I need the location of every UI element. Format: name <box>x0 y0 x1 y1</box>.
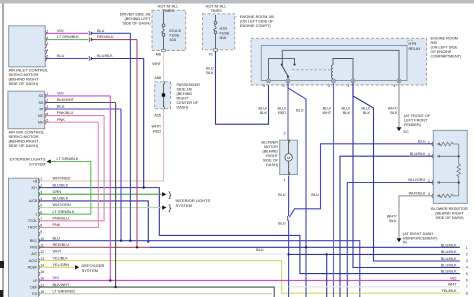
svg-text:R/B: R/B <box>431 41 438 45</box>
svg-text:4: 4 <box>466 266 468 270</box>
svg-text:BLK: BLK <box>260 111 268 115</box>
svg-text:OF ENGINE: OF ENGINE <box>431 50 452 54</box>
svg-text:BLU: BLU <box>97 29 105 33</box>
svg-text:BLU: BLU <box>311 193 319 197</box>
svg-text:1: 1 <box>35 212 37 216</box>
svg-text:SIDE OF: SIDE OF <box>263 159 279 163</box>
svg-text:REINFORCEMENT): REINFORCEMENT) <box>403 237 438 241</box>
svg-text:BLK: BLK <box>390 111 398 115</box>
svg-text:BLU: BLU <box>296 109 304 113</box>
svg-text:2: 2 <box>466 253 468 257</box>
svg-text:4: 4 <box>428 192 430 196</box>
svg-text:A/C: A/C <box>31 252 37 256</box>
svg-text:BLK: BLK <box>206 71 214 75</box>
svg-text:BLU/BLK: BLU/BLK <box>441 263 457 267</box>
svg-text:ENGINE ROOM J/B: ENGINE ROOM J/B <box>240 15 274 19</box>
svg-text:BLU: BLU <box>278 193 286 197</box>
svg-text:BLU/BLK: BLU/BLK <box>441 269 457 273</box>
svg-text:3: 3 <box>466 259 468 263</box>
svg-text:TIMES: TIMES <box>210 9 222 13</box>
svg-text:SYSTEM: SYSTEM <box>82 268 98 273</box>
svg-text:BLOWER: BLOWER <box>262 141 279 145</box>
svg-text:8: 8 <box>466 291 468 295</box>
svg-text:TCOL: TCOL <box>28 219 37 223</box>
svg-text:(BEHIND: (BEHIND <box>177 92 193 96</box>
svg-text:CENTER OF: CENTER OF <box>177 101 200 105</box>
svg-text:ACIO: ACIO <box>29 259 38 263</box>
svg-text:BLU/: BLU/ <box>259 106 268 110</box>
svg-text:VIO: VIO <box>53 276 60 280</box>
svg-text:LT GRN/BLK: LT GRN/BLK <box>57 157 79 161</box>
svg-text:HTR: HTR <box>409 42 417 46</box>
svg-text:HTR: HTR <box>220 27 228 31</box>
svg-text:VIO: VIO <box>57 92 64 96</box>
svg-text:SIDE OF DASH): SIDE OF DASH) <box>9 143 39 148</box>
svg-text:BLU/BLK: BLU/BLK <box>441 250 457 254</box>
svg-text:PNK: PNK <box>53 223 61 227</box>
svg-text:BLU: BLU <box>278 222 286 226</box>
svg-text:MH: MH <box>38 121 44 125</box>
svg-text:HOT AT ALL: HOT AT ALL <box>206 4 227 8</box>
svg-text:BLU: BLU <box>57 54 65 58</box>
svg-text:BLK: BLK <box>343 111 351 115</box>
svg-text:1: 1 <box>466 246 468 250</box>
svg-text:BLU/BLK: BLU/BLK <box>97 54 113 58</box>
svg-text:YEL/BLK: YEL/BLK <box>53 256 69 260</box>
svg-text:RED: RED <box>278 111 286 115</box>
svg-text:THOT: THOT <box>28 226 38 230</box>
svg-text:BLU/ORG: BLU/ORG <box>408 178 425 182</box>
svg-text:DRIVER SIDE J/B: DRIVER SIDE J/B <box>120 13 151 17</box>
svg-text:WHT/BLK: WHT/BLK <box>409 192 426 196</box>
svg-text:MC: MC <box>38 114 44 118</box>
svg-text:2: 2 <box>283 132 285 136</box>
svg-text:4: 4 <box>46 48 48 52</box>
svg-text:(ON LEFT SIDE: (ON LEFT SIDE <box>431 45 459 49</box>
svg-text:FUSE: FUSE <box>170 34 180 38</box>
svg-text:4: 4 <box>394 84 396 88</box>
svg-text:(BEHIND LEFT: (BEHIND LEFT <box>125 17 152 21</box>
svg-text:+B: +B <box>33 179 38 183</box>
svg-text:BLK: BLK <box>363 111 371 115</box>
svg-text:PNK: PNK <box>57 118 65 122</box>
svg-text:7: 7 <box>466 285 468 289</box>
svg-text:RIGHT: RIGHT <box>266 154 278 158</box>
svg-text:RED/BLU: RED/BLU <box>97 35 114 39</box>
svg-text:(BEHIND: (BEHIND <box>262 150 278 154</box>
svg-text:5: 5 <box>466 272 468 276</box>
svg-text:ECU-B: ECU-B <box>170 29 182 33</box>
svg-text:BLU/: BLU/ <box>362 106 371 110</box>
svg-text:15: 15 <box>40 270 44 274</box>
svg-text:SYSTEM: SYSTEM <box>29 161 45 166</box>
svg-text:YEL/BLK: YEL/BLK <box>441 289 457 293</box>
svg-text:BLK: BLK <box>389 219 397 223</box>
svg-text:MOTOR: MOTOR <box>264 145 278 149</box>
svg-text:WHT/: WHT/ <box>151 125 162 129</box>
svg-text:A88: A88 <box>154 76 161 80</box>
svg-text:BLOWER RESISTOR: BLOWER RESISTOR <box>431 207 468 211</box>
svg-text:BLK/WHT: BLK/WHT <box>57 98 75 102</box>
svg-text:BLU/: BLU/ <box>342 106 351 110</box>
svg-text:6: 6 <box>466 279 468 283</box>
svg-text:VIO: VIO <box>57 29 64 33</box>
svg-text:}: } <box>169 203 172 213</box>
svg-text:PNK/BLU: PNK/BLU <box>57 111 74 115</box>
svg-text:LT GRN/BLK: LT GRN/BLK <box>57 35 79 39</box>
svg-text:FRS: FRS <box>30 246 38 250</box>
svg-text:M: M <box>287 156 290 160</box>
svg-text:9: 9 <box>40 230 42 234</box>
svg-text:BLU: BLU <box>57 105 65 109</box>
svg-text:WHT: WHT <box>53 250 62 254</box>
svg-text:M6: M6 <box>156 53 161 57</box>
svg-text:A/CB: A/CB <box>29 199 38 203</box>
svg-text:COMPARTMENT): COMPARTMENT) <box>431 54 462 58</box>
svg-text:BLU: BLU <box>418 140 426 144</box>
svg-text:(BEHIND RIGHT: (BEHIND RIGHT <box>435 211 464 215</box>
svg-text:WHT: WHT <box>152 62 161 66</box>
svg-text:2: 2 <box>328 84 330 88</box>
svg-text:WHT: WHT <box>448 283 457 287</box>
svg-text:F.D: F.D <box>32 292 38 296</box>
svg-text:TP: TP <box>39 107 44 111</box>
svg-text:REC: REC <box>30 239 38 243</box>
svg-text:F1: F1 <box>209 53 213 57</box>
svg-text:}: } <box>169 189 172 199</box>
svg-text:RED: RED <box>153 129 161 133</box>
svg-text:BLU: BLU <box>53 236 61 240</box>
svg-text:IN: IN <box>403 240 407 244</box>
svg-text:BLU/BLK: BLU/BLK <box>441 257 457 261</box>
svg-text:1: 1 <box>283 178 285 182</box>
svg-text:ENGINE COMPT): ENGINE COMPT) <box>240 24 271 28</box>
svg-text:RED/BLU: RED/BLU <box>53 243 70 247</box>
svg-text:LP: LP <box>33 279 38 283</box>
svg-text:RIGHT: RIGHT <box>177 96 189 100</box>
svg-text:3: 3 <box>283 84 285 88</box>
svg-text:HOT AT ALL: HOT AT ALL <box>158 4 179 8</box>
svg-text:2: 2 <box>428 179 430 183</box>
svg-text:WHT/: WHT/ <box>387 214 398 218</box>
svg-text:5: 5 <box>263 84 265 88</box>
svg-text:RELAY: RELAY <box>409 47 422 51</box>
svg-text:SIDE J/B: SIDE J/B <box>177 87 193 91</box>
svg-text:PASSENGER: PASSENGER <box>177 83 201 87</box>
svg-text:WHT/: WHT/ <box>388 106 399 110</box>
svg-text:WHT/RED: WHT/RED <box>53 177 71 181</box>
svg-text:WHT/GRN: WHT/GRN <box>53 203 71 207</box>
svg-text:BLU/: BLU/ <box>278 106 287 110</box>
svg-text:RDEF: RDEF <box>28 265 38 269</box>
svg-text:EC: EC <box>404 130 410 134</box>
svg-text:BLU/BLK: BLU/BLK <box>53 197 69 201</box>
svg-text:(AT FRONT OF: (AT FRONT OF <box>404 114 431 118</box>
svg-text:3: 3 <box>428 153 430 157</box>
svg-text:BLU/BLK: BLU/BLK <box>410 152 426 156</box>
svg-text:DASH): DASH) <box>266 163 279 167</box>
svg-text:BLU: BLU <box>256 248 264 252</box>
svg-text:LEFT FRONT: LEFT FRONT <box>404 118 428 122</box>
svg-text:1: 1 <box>428 140 430 144</box>
svg-text:TIMES: TIMES <box>162 9 174 13</box>
svg-text:DASH): DASH) <box>177 105 190 109</box>
svg-text:BLU: BLU <box>206 66 214 70</box>
svg-text:10A: 10A <box>170 38 177 42</box>
svg-text:1: 1 <box>348 84 350 88</box>
svg-text:A26: A26 <box>154 114 161 118</box>
svg-text:BLU/BLK: BLU/BLK <box>53 183 69 187</box>
svg-text:SG: SG <box>38 101 43 105</box>
svg-text:FENDER): FENDER) <box>404 123 422 127</box>
svg-text:GRN: GRN <box>53 190 62 194</box>
svg-text:LT GRN/BLK: LT GRN/BLK <box>53 210 75 214</box>
svg-text:SG: SG <box>38 94 43 98</box>
svg-text:ENGINE ROOM: ENGINE ROOM <box>431 36 458 40</box>
svg-text:FUSE: FUSE <box>220 32 230 36</box>
svg-text:BLU/BLK: BLU/BLK <box>441 244 457 248</box>
svg-text:PNK/BLU: PNK/BLU <box>53 216 70 220</box>
svg-text:3: 3 <box>46 42 48 46</box>
svg-text:VIO: VIO <box>450 276 457 280</box>
svg-text:SYSTEM: SYSTEM <box>176 203 192 208</box>
svg-text:SIDE OF DASH): SIDE OF DASH) <box>435 216 464 220</box>
svg-text:(AT RIGHT DASH: (AT RIGHT DASH <box>403 232 433 236</box>
svg-text:IG+: IG+ <box>31 186 37 190</box>
svg-text:BLK/WHT: BLK/WHT <box>53 283 71 287</box>
svg-text:YEL/GRN: YEL/GRN <box>53 263 70 267</box>
svg-text:SIDE OF DASH): SIDE OF DASH) <box>9 81 39 86</box>
svg-text:BLU/: BLU/ <box>323 106 332 110</box>
svg-text:DEF: DEF <box>30 285 37 289</box>
svg-text:SIDE OF DASH): SIDE OF DASH) <box>122 22 151 26</box>
svg-text:50A: 50A <box>220 36 227 40</box>
svg-text:WHT: WHT <box>323 111 332 115</box>
svg-text:(ON LEFT SIDE OF: (ON LEFT SIDE OF <box>240 20 274 24</box>
svg-text:LT GRN/RED: LT GRN/RED <box>53 289 76 293</box>
